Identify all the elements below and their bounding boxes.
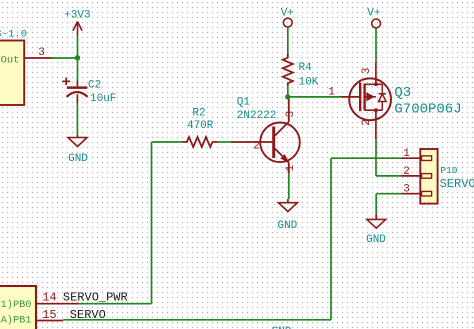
svg-text:Q1: Q1 bbox=[237, 97, 251, 109]
MCU pin 14 bbox=[36, 303, 79, 305]
regulator U-left body bbox=[0, 41, 24, 106]
svg-text:1)PB0: 1)PB0 bbox=[1, 299, 32, 311]
svg-text:S-1.0: S-1.0 bbox=[0, 29, 27, 41]
P10 pin 2 bbox=[402, 175, 421, 177]
wire junction to C2 bbox=[77, 58, 79, 81]
wire Q1 emitter to GND bbox=[288, 173, 290, 199]
wire connector pin3 to GND bbox=[376, 194, 401, 214]
MCU pin 15 bbox=[36, 320, 63, 322]
svg-text:2: 2 bbox=[361, 119, 373, 126]
wire R2 to Q1 base bbox=[218, 141, 232, 143]
wire Out to +3V3 junction bbox=[52, 57, 78, 59]
power symbol +3V3 bbox=[64, 10, 90, 36]
svg-text:15: 15 bbox=[42, 308, 56, 322]
svg-text:3: 3 bbox=[38, 47, 45, 59]
wire R4 to junction bbox=[287, 86, 289, 97]
svg-text:GND: GND bbox=[366, 234, 386, 246]
junction node R4/Q1/Q3 bbox=[285, 94, 290, 99]
svg-text:GND: GND bbox=[277, 220, 297, 232]
svg-text:3: 3 bbox=[403, 184, 410, 196]
transistor Q1 bbox=[231, 97, 300, 173]
resistor R4 bbox=[283, 54, 293, 86]
svg-text:SERVO: SERVO bbox=[440, 177, 474, 191]
svg-text:10uF: 10uF bbox=[90, 93, 116, 105]
capacitor C2 bbox=[62, 78, 87, 104]
svg-text:V+: V+ bbox=[367, 7, 380, 19]
Q3 gate pin bbox=[341, 96, 360, 98]
resistor R2 bbox=[182, 137, 217, 147]
svg-text:R2: R2 bbox=[192, 108, 205, 120]
svg-text:470R: 470R bbox=[187, 120, 214, 132]
ground under C2 bbox=[68, 135, 87, 147]
svg-text:A)PB1: A)PB1 bbox=[1, 315, 32, 327]
connector P10 body bbox=[420, 149, 437, 204]
svg-text:2: 2 bbox=[403, 166, 410, 178]
svg-text:C2: C2 bbox=[88, 79, 101, 91]
svg-text:2: 2 bbox=[253, 140, 260, 152]
svg-text:P10: P10 bbox=[440, 165, 457, 176]
P10 pin 3 bbox=[402, 193, 421, 195]
wire +3V3 to junction bbox=[77, 36, 79, 58]
svg-text:10K: 10K bbox=[299, 76, 319, 88]
wire junction to Q3 gate bbox=[290, 96, 341, 98]
svg-text:3: 3 bbox=[285, 111, 297, 118]
svg-text:14: 14 bbox=[42, 290, 56, 304]
power symbol V+ for R4 bbox=[281, 7, 294, 27]
junction node +3V3 bbox=[75, 55, 80, 60]
wire SERVO net connector pin1 to MCU pin15 bbox=[63, 158, 401, 320]
svg-text:Q3: Q3 bbox=[394, 85, 411, 101]
svg-text:1: 1 bbox=[403, 148, 410, 160]
svg-text:1: 1 bbox=[285, 165, 297, 172]
power symbol V+ for Q3 bbox=[367, 7, 380, 28]
P10 pin 1 bbox=[402, 157, 421, 159]
wire V+ to Q3 drain bbox=[375, 28, 377, 62]
wire SERVO_PWR pin14 to R2 bbox=[79, 142, 182, 304]
regulator pin 3 bbox=[24, 57, 53, 59]
svg-text:1: 1 bbox=[328, 86, 335, 98]
svg-text:SERVO_PWR: SERVO_PWR bbox=[63, 291, 128, 305]
svg-text:Out: Out bbox=[1, 55, 20, 67]
svg-text:3: 3 bbox=[361, 68, 373, 75]
svg-text:R4: R4 bbox=[299, 62, 313, 74]
svg-text:+3V3: +3V3 bbox=[64, 10, 90, 22]
mosfet Q3 bbox=[349, 62, 391, 139]
MCU U-bottom body bbox=[0, 286, 36, 329]
svg-text:GND: GND bbox=[68, 153, 88, 165]
wire V+ to R4 bbox=[287, 27, 289, 54]
wire C2 to GND bbox=[76, 103, 78, 135]
ground under connector pin3 bbox=[367, 214, 386, 228]
ground under Q1 bbox=[278, 199, 297, 212]
wire Q3 source to connector pin2 bbox=[376, 139, 402, 176]
svg-text:2N2222: 2N2222 bbox=[237, 110, 277, 122]
svg-text:G700P06J: G700P06J bbox=[394, 102, 461, 118]
